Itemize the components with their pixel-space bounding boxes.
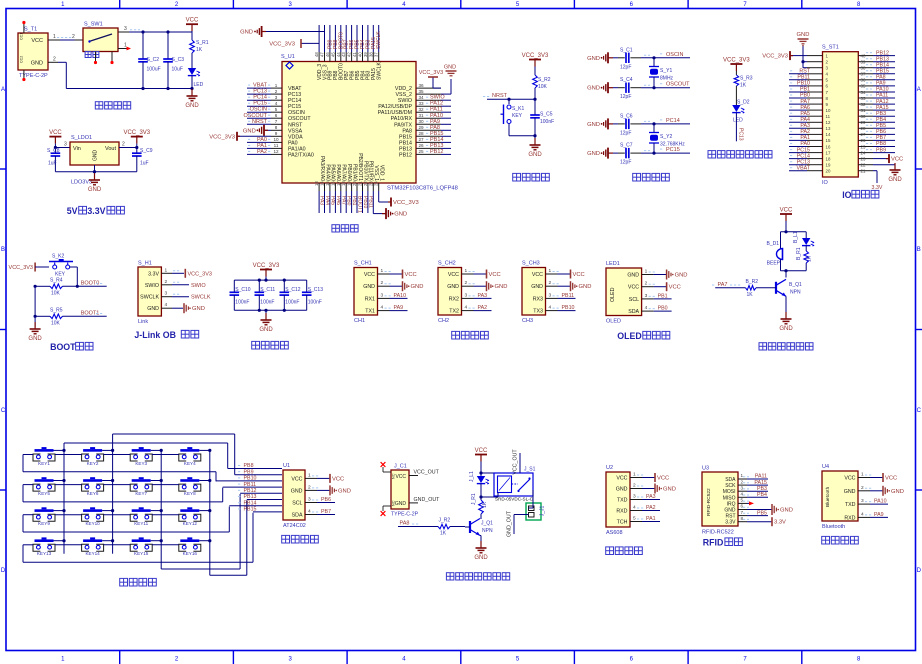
svg-text:35: 35 xyxy=(418,89,424,94)
io pin 32 net PA12 xyxy=(858,99,895,107)
rfid pin 2 SCK xyxy=(738,479,768,486)
svg-text:2: 2 xyxy=(122,142,125,148)
svg-text:CH2: CH2 xyxy=(438,318,449,324)
label 矩阵键盘 xyxy=(120,578,157,586)
svg-text:VCC: VCC xyxy=(532,272,543,278)
svg-text:MISO: MISO xyxy=(723,495,736,501)
chip pin 23 VSS_1 to GND xyxy=(368,165,407,219)
svg-text:26: 26 xyxy=(861,138,866,143)
chip pin 34 SWIO net SWIO xyxy=(398,95,451,105)
svg-text:S_R2: S_R2 xyxy=(538,77,551,83)
svg-text:KEY7: KEY7 xyxy=(135,491,147,496)
svg-text:3: 3 xyxy=(741,485,744,490)
capacitor S_C9 1uF xyxy=(132,148,153,172)
ground ldo xyxy=(88,173,102,193)
svg-text:6: 6 xyxy=(275,113,278,118)
svg-text:12: 12 xyxy=(826,120,831,125)
wire power bottom rail xyxy=(48,56,192,90)
svg-text:NRST: NRST xyxy=(492,93,508,99)
svg-text:37: 37 xyxy=(374,52,379,57)
svg-text:Link: Link xyxy=(138,319,148,325)
svg-text:2: 2 xyxy=(741,479,744,484)
svg-text:23: 23 xyxy=(368,181,373,186)
ground power circuit xyxy=(185,89,199,110)
svg-text:24: 24 xyxy=(374,181,379,186)
svg-text:100nF: 100nF xyxy=(260,300,274,306)
svg-text:3: 3 xyxy=(549,292,552,298)
svg-text:GND: GND xyxy=(627,273,639,279)
svg-text:S_Y2: S_Y2 xyxy=(660,134,672,140)
svg-text:11: 11 xyxy=(826,114,831,119)
svg-text:20: 20 xyxy=(826,169,831,174)
svg-text:GND: GND xyxy=(724,508,736,514)
label 滤波电路 xyxy=(252,341,289,349)
svg-text:PA7/A0: PA7/A0 xyxy=(341,164,347,181)
ground boot xyxy=(28,322,42,342)
jlink pin 2 SWIO xyxy=(161,279,206,289)
svg-text:GND: GND xyxy=(338,488,351,494)
svg-text:PB15: PB15 xyxy=(430,131,443,137)
wire relay to J_J1 xyxy=(529,490,534,508)
io pin 3 to GND xyxy=(803,66,829,71)
svg-text:S_C8: S_C8 xyxy=(47,148,60,154)
ground io header bottom xyxy=(888,163,902,183)
svg-text:1: 1 xyxy=(465,268,468,274)
capacitor S_C4 12pF row OSCOUT xyxy=(587,77,690,100)
svg-text:PA8: PA8 xyxy=(876,75,886,81)
svg-text:1: 1 xyxy=(549,268,552,274)
svg-text:1: 1 xyxy=(165,267,168,273)
chip bottom pin 19 net PB1 xyxy=(347,164,358,213)
LED1 pin 2 VCC VCC xyxy=(628,281,681,292)
svg-text:PA4: PA4 xyxy=(324,196,330,205)
svg-text:27: 27 xyxy=(418,137,424,142)
ground filter xyxy=(259,313,273,333)
no-connect J_C1 top xyxy=(381,462,391,472)
svg-text:PB9: PB9 xyxy=(876,147,886,153)
svg-text:47: 47 xyxy=(320,52,325,57)
chip pin 35 VSS_2 to GND xyxy=(396,65,457,99)
chip pin 36 VDD_2 to VCC_3V3 xyxy=(395,70,443,92)
svg-text:KEY11: KEY11 xyxy=(134,521,148,526)
label OLED显示屏 xyxy=(617,331,670,341)
svg-text:PA9: PA9 xyxy=(874,512,884,518)
io pin 33 net PA11 xyxy=(858,93,895,101)
svg-text:D: D xyxy=(917,568,922,574)
svg-text:18: 18 xyxy=(341,181,346,186)
svg-text:PB14: PB14 xyxy=(244,500,257,506)
svg-text:24: 24 xyxy=(861,150,866,155)
svg-text:25: 25 xyxy=(861,144,866,149)
svg-text:GND: GND xyxy=(291,488,303,494)
S_CH2 pin 4 TX2 PA2 xyxy=(449,305,491,315)
svg-text:PB12: PB12 xyxy=(399,152,412,158)
svg-text:12pF: 12pF xyxy=(620,64,631,70)
chip bottom pin 15 net PA5 xyxy=(325,164,336,213)
svg-text:OLED: OLED xyxy=(610,287,616,302)
svg-text:1: 1 xyxy=(633,472,636,478)
svg-text:BOOT1: BOOT1 xyxy=(357,196,363,213)
svg-text:TX2: TX2 xyxy=(449,309,459,315)
svg-text:VCC: VCC xyxy=(31,38,43,44)
chip top pin 40 net PB4 xyxy=(358,25,367,80)
matrix row net risers xyxy=(216,472,253,563)
svg-text:S_SW1: S_SW1 xyxy=(84,22,103,28)
svg-text:2: 2 xyxy=(549,280,552,286)
label 声光报警电路 xyxy=(759,343,813,350)
label IO拓展口 xyxy=(842,190,879,200)
chip pin 29 PA8 net PA8 xyxy=(402,125,451,135)
svg-text:KEY12: KEY12 xyxy=(183,521,198,526)
buzzer B_D1 BEEP xyxy=(766,232,782,271)
svg-text:SDA: SDA xyxy=(628,309,639,315)
svg-text:SWIO: SWIO xyxy=(191,283,206,289)
net VCC_OUT wire xyxy=(409,470,440,476)
svg-text:GND: GND xyxy=(844,489,856,495)
svg-text:16: 16 xyxy=(330,181,335,186)
io pin 26 net PB7 xyxy=(858,135,895,143)
svg-text:GND: GND xyxy=(528,152,542,158)
svg-text:RX3: RX3 xyxy=(533,296,543,302)
svg-text:41: 41 xyxy=(352,52,357,57)
capacitor S_C11 100nF xyxy=(255,280,276,310)
svg-text:27: 27 xyxy=(861,132,866,137)
power VCC_3V3 filter xyxy=(253,263,280,277)
svg-text:20: 20 xyxy=(352,181,357,186)
svg-text:OSCIN: OSCIN xyxy=(250,107,267,113)
svg-text:3: 3 xyxy=(64,142,67,148)
svg-text:KEY: KEY xyxy=(512,113,523,119)
LED S_D2 xyxy=(732,100,750,124)
S_CH1 pin 1 VCC VCC xyxy=(364,268,417,279)
svg-text:CH3: CH3 xyxy=(522,318,533,324)
capacitor S_C6 12pF row PC14 xyxy=(587,113,690,136)
svg-text:PB8: PB8 xyxy=(876,141,886,147)
svg-text:2: 2 xyxy=(465,280,468,286)
chip pin 2 PC13 net PC13 xyxy=(247,89,301,99)
wire filter bottom rail xyxy=(234,309,306,318)
svg-text:3: 3 xyxy=(381,292,384,298)
label 程序运行指示灯 xyxy=(708,151,772,158)
power VCC_3V3 ldo xyxy=(123,130,150,144)
chip pin 47 VSS_3 wire xyxy=(266,25,328,80)
svg-text:4: 4 xyxy=(381,305,384,311)
svg-text:GND: GND xyxy=(779,326,793,332)
resistor B_R2 1K xyxy=(746,279,777,298)
jlink pin 3 SWCLK xyxy=(161,291,210,301)
svg-text:12pF: 12pF xyxy=(620,130,631,136)
svg-text:GND: GND xyxy=(495,284,508,290)
svg-text:S_C2: S_C2 xyxy=(147,57,160,63)
capacitor S_C7 12pF row PC15 xyxy=(587,143,690,166)
svg-text:OSCIN: OSCIN xyxy=(666,52,683,58)
svg-text:PB0: PB0 xyxy=(658,306,668,312)
svg-text:32: 32 xyxy=(861,102,866,107)
svg-text:32.768KHz: 32.768KHz xyxy=(660,142,685,148)
svg-text:KEY16: KEY16 xyxy=(183,551,198,556)
svg-text:GND: GND xyxy=(28,336,42,342)
svg-text:AS608: AS608 xyxy=(606,530,623,536)
svg-text:2: 2 xyxy=(645,281,648,287)
io pin 34 net PA10 xyxy=(858,87,895,95)
rfid pin 3 MOSI xyxy=(738,485,768,492)
svg-text:TX1: TX1 xyxy=(365,309,375,315)
regulator S_LDO1 LDO3V3 xyxy=(70,135,119,186)
svg-text:44: 44 xyxy=(336,52,341,57)
svg-text:PB1/A0: PB1/A0 xyxy=(351,164,357,181)
svg-text:PB2/BOOT1: PB2/BOOT1 xyxy=(357,153,363,181)
U2 pin 5 TCH PA1 xyxy=(617,516,660,526)
svg-text:16: 16 xyxy=(826,144,831,149)
wire indicator to PC13 xyxy=(736,113,743,142)
svg-text:39: 39 xyxy=(363,52,368,57)
net stub PB12 xyxy=(238,488,282,494)
wire vcc to ldo xyxy=(54,142,70,150)
net VCC_OUT relay top xyxy=(513,449,521,475)
svg-text:PB11: PB11 xyxy=(797,75,810,81)
svg-text:GND: GND xyxy=(587,151,600,157)
svg-text:2: 2 xyxy=(861,485,864,491)
svg-text:14: 14 xyxy=(320,181,325,186)
chip pin 27 PB14 net PB14 xyxy=(399,137,451,147)
rfid pin 4 MISO xyxy=(738,492,768,499)
svg-text:GND: GND xyxy=(675,273,688,279)
label 指纹模块 xyxy=(606,547,643,555)
svg-text:10: 10 xyxy=(273,137,279,142)
chip pin 48 VDD_3 wire xyxy=(301,25,323,80)
label 继电器控制电路 xyxy=(446,573,509,580)
svg-text:U3: U3 xyxy=(702,466,709,472)
svg-text:SDA: SDA xyxy=(725,477,736,483)
svg-text:17: 17 xyxy=(336,181,341,186)
svg-text:10uF: 10uF xyxy=(172,67,183,73)
io pin 20 net VBAT xyxy=(789,165,831,173)
svg-text:VCC_3V3: VCC_3V3 xyxy=(419,70,443,76)
svg-text:VBAT: VBAT xyxy=(797,165,811,171)
chip bottom pin 21 net PB10 xyxy=(358,161,369,213)
svg-text:S_C4: S_C4 xyxy=(620,77,633,83)
svg-text:KEY2: KEY2 xyxy=(87,461,99,466)
resistor J_R1 1K xyxy=(471,493,488,519)
svg-text:VCC: VCC xyxy=(291,476,302,482)
svg-text:31: 31 xyxy=(861,108,866,113)
wire collector xyxy=(480,514,482,519)
svg-text:VCC: VCC xyxy=(49,130,62,136)
S_CH1 pin 4 TX1 PA9 xyxy=(365,305,407,315)
svg-text:40: 40 xyxy=(358,52,363,57)
key KEY13 xyxy=(33,537,55,556)
S_CH3 pin 1 VCC VCC xyxy=(532,268,585,279)
svg-text:PB0: PB0 xyxy=(346,196,352,206)
U1 pin 4 SDA PB7 xyxy=(292,509,335,519)
svg-text:GND: GND xyxy=(363,284,375,290)
rfid pin 1 SDA xyxy=(738,473,768,480)
label RFID模块 xyxy=(703,538,743,548)
svg-text:B: B xyxy=(1,247,5,253)
chip pin 6 OSCOUT net OSCOUT xyxy=(243,113,311,122)
key S_K1 KEY xyxy=(501,99,536,136)
module U2 body xyxy=(606,465,630,536)
svg-text:8: 8 xyxy=(741,516,744,521)
svg-text:4: 4 xyxy=(633,505,636,511)
svg-text:37: 37 xyxy=(861,72,866,77)
svg-text:A: A xyxy=(1,87,5,93)
svg-text:3: 3 xyxy=(124,26,127,32)
svg-text:PA8: PA8 xyxy=(400,521,410,527)
svg-text:TXD: TXD xyxy=(845,502,856,508)
svg-text:VCC_3V3: VCC_3V3 xyxy=(269,41,295,47)
net stub PB8 xyxy=(228,463,282,469)
svg-text:PA2: PA2 xyxy=(257,149,267,155)
svg-text:23: 23 xyxy=(861,156,866,161)
module U1 body xyxy=(283,463,306,529)
svg-text:IO: IO xyxy=(842,190,851,200)
svg-text:Vin: Vin xyxy=(73,146,81,152)
connector S_ST1 IO header body xyxy=(822,45,858,186)
OLED vertical name xyxy=(610,287,616,302)
svg-text:19: 19 xyxy=(347,181,352,186)
svg-text:3.3V: 3.3V xyxy=(774,520,786,526)
svg-text:6: 6 xyxy=(741,504,744,509)
svg-text:VCC_3V3: VCC_3V3 xyxy=(522,53,549,59)
svg-text:48: 48 xyxy=(314,52,319,57)
svg-text:1K: 1K xyxy=(196,47,203,53)
io pin 19 net PC13 xyxy=(789,159,831,167)
io pin 8 net PB0 xyxy=(789,93,829,101)
svg-text:A: A xyxy=(917,87,921,93)
svg-text:PA6: PA6 xyxy=(800,105,810,111)
wire emitter xyxy=(480,536,481,547)
svg-text:PA6/A0: PA6/A0 xyxy=(335,164,341,181)
crystal S_Y1 8MHz xyxy=(649,56,674,89)
io pin 36 net PA8 xyxy=(858,75,895,83)
svg-text:Bluetooth: Bluetooth xyxy=(822,524,845,530)
chip pin 8 VSSA to ground xyxy=(243,125,303,136)
svg-text:PA5: PA5 xyxy=(800,111,810,117)
svg-text:TXD: TXD xyxy=(617,498,628,504)
chip pin 24 VDD_1 to VCC_3V3 xyxy=(374,165,419,207)
svg-text:VCC: VCC xyxy=(628,285,639,291)
wire VCC stem xyxy=(141,30,192,40)
svg-text:PB12: PB12 xyxy=(876,50,889,56)
connector S_H1 J-Link xyxy=(138,261,161,326)
svg-text:CH1: CH1 xyxy=(354,318,365,324)
ground io header top xyxy=(797,32,810,46)
svg-text:MOSI: MOSI xyxy=(723,489,736,495)
capacitor S_C1 12pF row OSCIN xyxy=(587,47,690,70)
svg-text:VCC: VCC xyxy=(891,157,903,163)
svg-text:VCC_3V3: VCC_3V3 xyxy=(123,130,150,136)
svg-text:GND: GND xyxy=(411,284,424,290)
svg-text:100nF: 100nF xyxy=(308,300,322,306)
S_CH2 pin 1 VCC VCC xyxy=(448,268,501,279)
svg-text:KEY: KEY xyxy=(55,272,66,278)
svg-text:15: 15 xyxy=(826,138,831,143)
svg-text:VCC: VCC xyxy=(489,272,501,278)
connector J_C1 TYPE-C-2P xyxy=(391,464,419,518)
svg-text:OSCOUT: OSCOUT xyxy=(666,82,690,88)
svg-text:S_C3: S_C3 xyxy=(172,57,185,63)
svg-text:22: 22 xyxy=(363,181,368,186)
S_CH1 pin 3 RX1 PA10 xyxy=(365,292,408,302)
svg-text:5: 5 xyxy=(741,498,744,503)
svg-text:19: 19 xyxy=(826,163,831,168)
svg-text:VCC_3V3: VCC_3V3 xyxy=(209,134,235,140)
svg-text:PA3: PA3 xyxy=(478,293,488,299)
label 主芯片 xyxy=(332,225,358,232)
svg-text:VCC: VCC xyxy=(395,474,406,480)
io pin 15 net PA1 xyxy=(789,135,831,143)
svg-text:17: 17 xyxy=(826,150,831,155)
power VCC ldo xyxy=(49,130,62,144)
io pin 28 net PB5 xyxy=(858,123,895,131)
svg-text:PA9: PA9 xyxy=(876,81,886,87)
svg-text:BEEP: BEEP xyxy=(767,261,781,267)
resistor S_R5 10K xyxy=(35,308,107,327)
svg-text:SCK: SCK xyxy=(725,483,736,489)
svg-text:PB3: PB3 xyxy=(757,486,767,492)
svg-text:PB1: PB1 xyxy=(351,196,357,206)
svg-text:GND: GND xyxy=(88,187,102,193)
label 5V转3.3V电路 xyxy=(67,206,125,216)
svg-text:GND: GND xyxy=(663,487,676,493)
svg-text:VCC: VCC xyxy=(616,476,627,482)
S_CH3 pin 4 TX3 PB10 xyxy=(533,305,575,315)
svg-text:PA4/A0: PA4/A0 xyxy=(324,164,330,181)
rfid pin 8 3.3V xyxy=(738,516,786,526)
io pin 27 net PB6 xyxy=(858,129,895,137)
svg-text:10: 10 xyxy=(826,108,831,113)
switch pin1 stub with NC arrow xyxy=(118,43,131,51)
svg-text:GND: GND xyxy=(31,61,43,67)
svg-text:11: 11 xyxy=(274,143,279,148)
svg-text:1: 1 xyxy=(308,472,311,478)
svg-text:KEY4: KEY4 xyxy=(184,461,196,466)
key KEY14 xyxy=(82,537,104,556)
svg-text:PA2: PA2 xyxy=(478,305,488,311)
svg-text:KEY5: KEY5 xyxy=(38,491,50,496)
svg-text:10K: 10K xyxy=(538,84,548,90)
capacitor S_C10 100nF xyxy=(230,280,251,310)
resistor S_R3 1K xyxy=(734,71,753,105)
io pin 39 net PB13 xyxy=(858,56,895,64)
transistor B_Q1 NPN xyxy=(776,271,802,297)
chip pin 7 NRST net NRST xyxy=(247,119,303,129)
svg-text:1uF: 1uF xyxy=(140,161,149,167)
svg-text:PB10: PB10 xyxy=(362,196,368,208)
svg-text:PB15: PB15 xyxy=(399,134,412,140)
LED1 pin 4 SDA PB0 xyxy=(628,305,671,315)
svg-text:Bluetooth: Bluetooth xyxy=(825,486,831,507)
capacitor S_C2 100uF xyxy=(138,32,160,89)
wire S_SW1 pin3 to VCC rail xyxy=(118,26,192,32)
svg-text:8MHz: 8MHz xyxy=(660,76,674,82)
resistor S_R1 1K xyxy=(190,40,209,68)
svg-text:PA6: PA6 xyxy=(335,196,341,205)
U4 pin 3 TXD PA10 xyxy=(845,498,888,508)
svg-text:1K: 1K xyxy=(482,501,488,508)
svg-text:PA3: PA3 xyxy=(319,196,325,205)
svg-text:GND: GND xyxy=(395,501,407,507)
svg-text:PC15: PC15 xyxy=(666,147,680,153)
key KEY11 xyxy=(130,507,152,526)
io pin 2 to GND xyxy=(801,46,828,68)
svg-text:1: 1 xyxy=(645,269,648,275)
svg-text:2: 2 xyxy=(275,89,278,94)
svg-text:1K: 1K xyxy=(440,531,447,537)
svg-text:26: 26 xyxy=(418,143,424,148)
svg-text:3: 3 xyxy=(861,498,864,504)
